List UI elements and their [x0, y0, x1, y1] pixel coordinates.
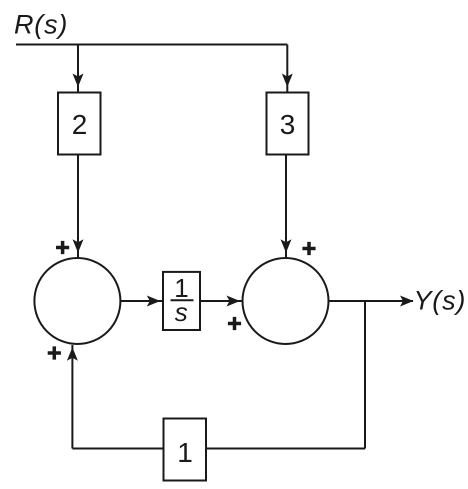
feedback block 1 box [164, 419, 207, 481]
arrowhead at output Y(s) [400, 296, 414, 307]
plus sign: S1 top input [56, 241, 69, 254]
gain block 3 box [267, 93, 309, 155]
arrowhead into summer S1 bottom [67, 347, 78, 361]
summing junction S2 [243, 258, 329, 344]
plus sign: S2 left input [228, 317, 241, 330]
arrowhead into block 3 [282, 74, 293, 88]
svg-text:Y(s): Y(s) [414, 286, 467, 316]
arrowhead into summer S1 top [73, 239, 84, 253]
wire: branch down into block 2 [77, 45, 79, 93]
wire: branch down into block 3 [286, 45, 288, 93]
wire: integrator output to summer S2 [200, 300, 242, 302]
wire: feedback bottom run [72, 448, 365, 450]
summing junction S1 [34, 258, 120, 344]
svg-text:2: 2 [72, 109, 88, 140]
arrowhead into integrator [147, 296, 161, 307]
plus sign: S2 top input [302, 242, 315, 255]
plus sign: S1 bottom input [48, 346, 61, 359]
wire: S2 output to Y(s) [328, 300, 413, 302]
svg-text:1: 1 [177, 437, 193, 468]
svg-text:s: s [175, 297, 188, 327]
wire: feedback tap downward [364, 301, 366, 449]
wire: S1 output to integrator [120, 300, 162, 302]
integrator block 1/s box [163, 272, 200, 330]
gain block 2 box [58, 93, 101, 155]
arrowhead into summer S2 left [227, 296, 241, 307]
svg-text:R(s): R(s) [14, 10, 68, 40]
arrowhead into summer S2 top [281, 239, 292, 253]
wire: input bus from R(s) [16, 44, 287, 46]
svg-text:3: 3 [280, 109, 296, 140]
integrator fraction bar [171, 299, 194, 301]
wire: block 2 output to summer S1 [77, 155, 79, 258]
wire: feedback riser into S1 [71, 345, 73, 449]
wire: block 3 output to summer S2 [285, 155, 287, 258]
arrowhead into block 2 [73, 74, 84, 88]
